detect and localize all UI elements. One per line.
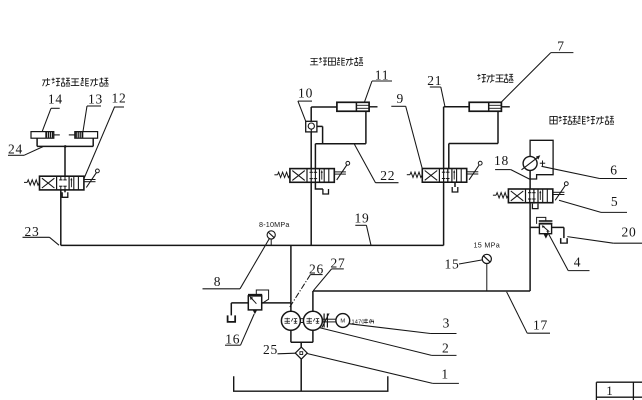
svg-text:16: 16 <box>225 332 240 347</box>
svg-text:9: 9 <box>397 91 405 106</box>
svg-text:1: 1 <box>606 383 613 398</box>
svg-text:19: 19 <box>354 210 369 225</box>
svg-text:8: 8 <box>214 274 222 289</box>
svg-text:15 MPa: 15 MPa <box>474 241 501 250</box>
svg-text:12: 12 <box>111 91 126 106</box>
svg-text:20: 20 <box>621 225 636 240</box>
svg-text:14: 14 <box>48 92 63 107</box>
svg-text:11: 11 <box>375 68 390 83</box>
svg-text:8-10MPa: 8-10MPa <box>259 220 290 229</box>
svg-text:18: 18 <box>494 153 509 168</box>
svg-text:22: 22 <box>380 168 395 183</box>
svg-text:7: 7 <box>557 39 565 54</box>
svg-text:10: 10 <box>298 86 313 101</box>
svg-text:21: 21 <box>427 73 442 88</box>
svg-text:1: 1 <box>441 367 449 382</box>
svg-text:6: 6 <box>610 163 618 178</box>
svg-text:M: M <box>340 319 345 325</box>
svg-text:25: 25 <box>263 342 278 357</box>
svg-text:23: 23 <box>24 224 39 239</box>
svg-text:2: 2 <box>442 341 450 356</box>
svg-text:5: 5 <box>611 194 619 209</box>
svg-text:3: 3 <box>443 316 451 331</box>
svg-text:4: 4 <box>574 254 582 269</box>
svg-text:13: 13 <box>88 92 103 107</box>
svg-text:17: 17 <box>533 318 548 333</box>
svg-text:27: 27 <box>330 256 345 271</box>
svg-text:15: 15 <box>444 257 459 272</box>
svg-text:24: 24 <box>8 142 23 157</box>
svg-text:26: 26 <box>309 262 324 277</box>
